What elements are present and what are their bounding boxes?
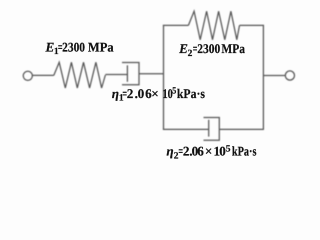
- svg-text:kPa·s: kPa·s: [177, 86, 205, 101]
- spring E2: [188, 11, 239, 40]
- svg-text:2: 2: [188, 49, 193, 59]
- svg-text:5: 5: [172, 87, 176, 97]
- dashpot eta2 piston: [208, 120, 210, 137]
- wire: [139, 73, 164, 75]
- svg-text:0: 0: [138, 86, 145, 101]
- spring E1: [54, 62, 106, 88]
- svg-text:×: ×: [205, 144, 213, 159]
- wire: [105, 74, 127, 76]
- dashpot eta1 piston: [126, 65, 128, 82]
- node right vertical: [262, 25, 264, 129]
- svg-text:2300: 2300: [197, 41, 220, 56]
- svg-text:MPa: MPa: [88, 40, 114, 55]
- svg-text:5: 5: [226, 144, 231, 154]
- svg-text:E: E: [178, 41, 188, 56]
- wire bottom branch right: [219, 128, 264, 130]
- right terminal: [285, 71, 294, 80]
- wire: [32, 74, 53, 76]
- label E1=2300 MPa: [45, 40, 115, 58]
- svg-text:×: ×: [151, 86, 159, 101]
- dashpot eta2 cylinder: [204, 118, 220, 141]
- svg-text:η: η: [166, 144, 173, 159]
- wire top branch left: [163, 24, 189, 26]
- wire top branch right: [240, 24, 264, 26]
- label eta1 = 2.06e5 kPa.s: [112, 86, 205, 104]
- wire bottom branch left: [163, 128, 209, 130]
- dashpot eta1 cylinder: [122, 63, 139, 85]
- label eta2 = 2.06e5 kPa.s: [166, 144, 256, 162]
- label E2=2300 MPa: [178, 41, 245, 59]
- svg-text:2: 2: [127, 86, 134, 101]
- node left vertical: [163, 25, 165, 129]
- svg-text:2300: 2300: [62, 40, 85, 55]
- svg-text:MPa: MPa: [221, 41, 245, 56]
- left terminal: [23, 71, 32, 80]
- wire: [263, 74, 285, 76]
- svg-text:6: 6: [197, 144, 204, 159]
- svg-text:kPa·s: kPa·s: [232, 144, 257, 159]
